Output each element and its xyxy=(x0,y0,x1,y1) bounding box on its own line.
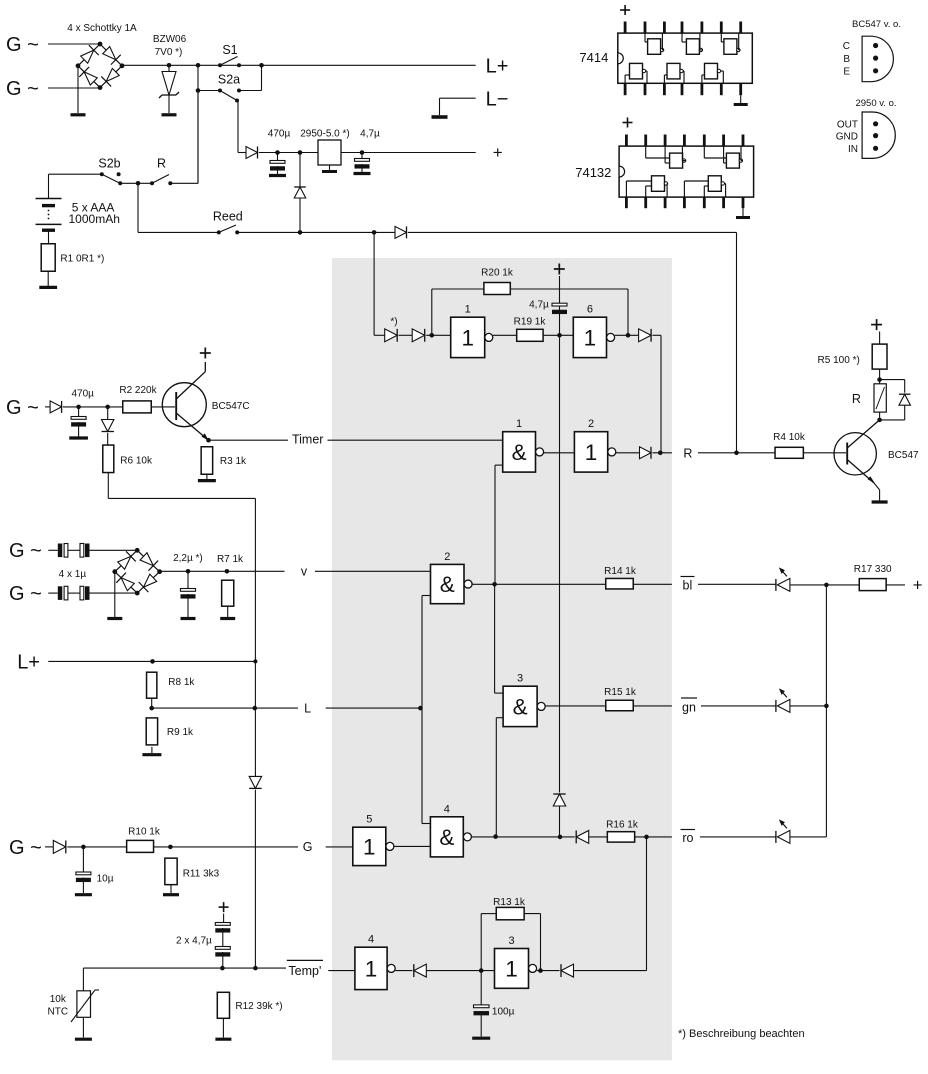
svg-text:1: 1 xyxy=(584,325,597,350)
svg-text:*): *) xyxy=(390,317,397,328)
svg-text:2,2µ *): 2,2µ *) xyxy=(173,553,203,564)
svg-text:R14 1k: R14 1k xyxy=(604,566,637,577)
svg-text:R13 1k: R13 1k xyxy=(493,897,526,908)
svg-text:10k: 10k xyxy=(50,994,67,1005)
svg-text:470µ: 470µ xyxy=(268,129,291,140)
svg-text:+: + xyxy=(493,143,503,162)
svg-text:R1 0R1 *): R1 0R1 *) xyxy=(60,254,104,265)
svg-text:2: 2 xyxy=(444,551,450,563)
svg-text:S1: S1 xyxy=(222,43,237,57)
svg-text:C: C xyxy=(843,41,850,52)
svg-text:1: 1 xyxy=(365,956,378,981)
svg-text:R19 1k: R19 1k xyxy=(514,317,547,328)
svg-text:R9 1k: R9 1k xyxy=(167,727,194,738)
svg-text:R: R xyxy=(683,447,692,461)
svg-text:1: 1 xyxy=(461,325,474,350)
svg-text:1: 1 xyxy=(505,956,518,981)
svg-text:R15 1k: R15 1k xyxy=(604,687,637,698)
svg-text:6: 6 xyxy=(587,304,593,316)
svg-text:R17 330: R17 330 xyxy=(854,564,892,575)
svg-text:G: G xyxy=(303,840,313,854)
svg-text:G ~: G ~ xyxy=(6,34,39,56)
svg-text:1: 1 xyxy=(585,440,598,465)
svg-text:NTC: NTC xyxy=(48,1007,69,1018)
svg-text:R10 1k: R10 1k xyxy=(128,827,161,838)
svg-text:v: v xyxy=(301,564,308,578)
svg-text:7V0 *): 7V0 *) xyxy=(155,47,183,58)
svg-text:S2b: S2b xyxy=(98,157,120,171)
svg-text:G ~: G ~ xyxy=(9,540,42,562)
svg-text:R: R xyxy=(852,392,861,406)
svg-text:4,7µ: 4,7µ xyxy=(529,300,549,311)
svg-text:+: + xyxy=(913,576,923,595)
svg-text:G ~: G ~ xyxy=(9,583,42,605)
svg-text:R11 3k3: R11 3k3 xyxy=(183,869,220,880)
svg-text:E: E xyxy=(843,67,850,78)
svg-text:100µ: 100µ xyxy=(492,1006,515,1017)
svg-text:1: 1 xyxy=(516,418,522,430)
svg-text:470µ: 470µ xyxy=(71,389,94,400)
svg-text:&: & xyxy=(512,440,527,465)
svg-text:L+: L+ xyxy=(17,652,40,674)
svg-text:R: R xyxy=(157,157,166,171)
svg-text:ro: ro xyxy=(682,831,693,845)
svg-text:*) Beschreibung beachten: *) Beschreibung beachten xyxy=(678,1028,805,1040)
svg-text:R8 1k: R8 1k xyxy=(168,677,195,688)
svg-text:R3 1k: R3 1k xyxy=(220,456,247,467)
svg-text:bl: bl xyxy=(683,579,693,593)
svg-text:gn: gn xyxy=(682,701,696,715)
svg-text:7414: 7414 xyxy=(579,50,608,65)
svg-text:1000mAh: 1000mAh xyxy=(69,212,120,226)
svg-text:74132: 74132 xyxy=(575,165,611,180)
svg-text:BC547C: BC547C xyxy=(212,401,250,412)
svg-text:Timer: Timer xyxy=(292,433,323,447)
svg-text:10µ: 10µ xyxy=(97,874,114,885)
svg-text:S2a: S2a xyxy=(218,73,240,87)
svg-text:R20 1k: R20 1k xyxy=(481,268,514,279)
svg-text:G ~: G ~ xyxy=(6,78,39,100)
svg-text:2950-5.0 *): 2950-5.0 *) xyxy=(300,129,349,140)
svg-text:L+: L+ xyxy=(486,56,509,78)
svg-text:&: & xyxy=(440,572,455,597)
svg-text:1: 1 xyxy=(363,834,376,859)
svg-text:&: & xyxy=(513,694,528,719)
svg-text:R6 10k: R6 10k xyxy=(120,456,153,467)
svg-text:3: 3 xyxy=(517,673,523,685)
svg-text:BC547 v. o.: BC547 v. o. xyxy=(852,19,901,30)
svg-text:4: 4 xyxy=(444,803,450,815)
svg-text:R5 100 *): R5 100 *) xyxy=(818,355,860,366)
svg-text:4 x 1µ: 4 x 1µ xyxy=(59,569,87,580)
svg-text:B: B xyxy=(843,54,850,65)
svg-text:BZW06: BZW06 xyxy=(153,34,187,45)
svg-text:4,7µ: 4,7µ xyxy=(360,129,380,140)
svg-text:4 x Schottky 1A: 4 x Schottky 1A xyxy=(67,23,137,34)
svg-text:G ~: G ~ xyxy=(9,837,42,859)
svg-text:2950 v. o.: 2950 v. o. xyxy=(855,98,896,109)
svg-text:2 x 4,7µ: 2 x 4,7µ xyxy=(176,936,212,947)
svg-text:G ~: G ~ xyxy=(6,397,39,419)
svg-text:1: 1 xyxy=(465,304,471,316)
svg-text:&: & xyxy=(439,825,454,850)
svg-text:R12 39k *): R12 39k *) xyxy=(235,1001,282,1012)
svg-text:5: 5 xyxy=(366,814,372,826)
svg-text:R2 220k: R2 220k xyxy=(119,385,157,396)
svg-text:BC547: BC547 xyxy=(888,450,919,461)
svg-text:OUT: OUT xyxy=(837,120,858,131)
svg-text:4: 4 xyxy=(368,934,374,946)
svg-text:GND: GND xyxy=(836,131,858,142)
svg-text:R4 10k: R4 10k xyxy=(773,432,806,443)
svg-text:L−: L− xyxy=(486,89,509,111)
svg-text:L: L xyxy=(304,701,311,715)
svg-text:3: 3 xyxy=(508,935,514,947)
svg-text:2: 2 xyxy=(588,418,594,430)
svg-text:IN: IN xyxy=(848,144,858,155)
svg-text:Reed: Reed xyxy=(213,210,243,224)
svg-text:R7 1k: R7 1k xyxy=(217,554,244,565)
svg-text:R16 1k: R16 1k xyxy=(606,820,639,831)
svg-text:Temp': Temp' xyxy=(288,964,321,978)
